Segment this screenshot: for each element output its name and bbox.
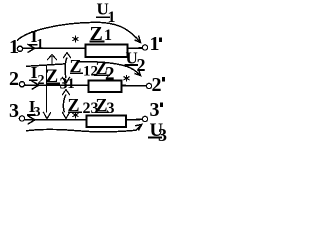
current arrow I3 head	[28, 116, 35, 124]
label Z2	[94, 58, 115, 85]
terminal circle 1	[17, 46, 22, 51]
terminal label 1	[9, 36, 19, 58]
svg-text:2: 2	[9, 68, 19, 90]
label Z23	[68, 95, 99, 117]
label Z1	[90, 23, 113, 45]
terminal label 2'	[152, 74, 166, 96]
voltage arc U3	[26, 124, 142, 131]
terminal label 3'	[150, 99, 164, 121]
impedance box Z2	[89, 81, 122, 93]
label I3	[27, 97, 41, 120]
label U3	[148, 120, 167, 145]
star coil 2	[124, 75, 130, 82]
svg-text:1: 1	[150, 33, 160, 55]
coupling arrow Z12 curved double arrow	[62, 53, 71, 84]
wire row1 right	[128, 47, 143, 49]
terminal circle 1'	[142, 45, 147, 50]
svg-text:3: 3	[9, 100, 19, 122]
wire row1 left	[23, 47, 86, 49]
label I2	[29, 63, 45, 88]
terminal label 2	[9, 68, 19, 90]
impedance box Z3	[87, 116, 127, 128]
impedance box Z1	[86, 45, 128, 58]
label I1	[29, 27, 44, 52]
svg-text:2: 2	[105, 64, 115, 85]
terminal circle 2'	[146, 83, 151, 88]
current arrow I1 head	[28, 44, 35, 52]
wire row3 right	[126, 118, 142, 120]
svg-text:3: 3	[107, 100, 115, 117]
svg-text:12: 12	[83, 64, 98, 80]
label U1	[96, 0, 116, 26]
current arrow I2 head	[32, 81, 39, 89]
label Z3	[95, 95, 115, 117]
terminal circle 2	[19, 82, 24, 87]
star coil 3	[73, 112, 79, 119]
terminal label 1'	[150, 33, 163, 55]
terminal label 3	[9, 100, 19, 122]
terminal circle 3	[19, 116, 24, 121]
coupling arrow Z23 curved double arrow	[62, 90, 70, 119]
svg-text:3: 3	[150, 99, 160, 121]
wire row2 left	[25, 84, 89, 86]
svg-text:3: 3	[34, 105, 41, 120]
svg-text:3: 3	[158, 125, 167, 141]
label Z12	[70, 56, 99, 80]
voltage arc U1	[17, 22, 141, 42]
svg-text:1: 1	[104, 27, 112, 44]
svg-text:1: 1	[37, 37, 44, 52]
star coil 1	[73, 36, 79, 43]
svg-text:2: 2	[38, 73, 45, 88]
svg-text:2: 2	[137, 55, 146, 75]
svg-text:1: 1	[108, 9, 116, 26]
terminal circle 3'	[142, 116, 147, 121]
label U2	[125, 48, 146, 75]
coupling arrow Z31 bent connector	[26, 55, 66, 119]
wire row2 right	[122, 85, 147, 87]
voltage arc U2	[78, 62, 141, 76]
label Z31	[46, 66, 75, 92]
svg-text:2: 2	[152, 74, 162, 96]
wire row3 left	[25, 119, 87, 121]
